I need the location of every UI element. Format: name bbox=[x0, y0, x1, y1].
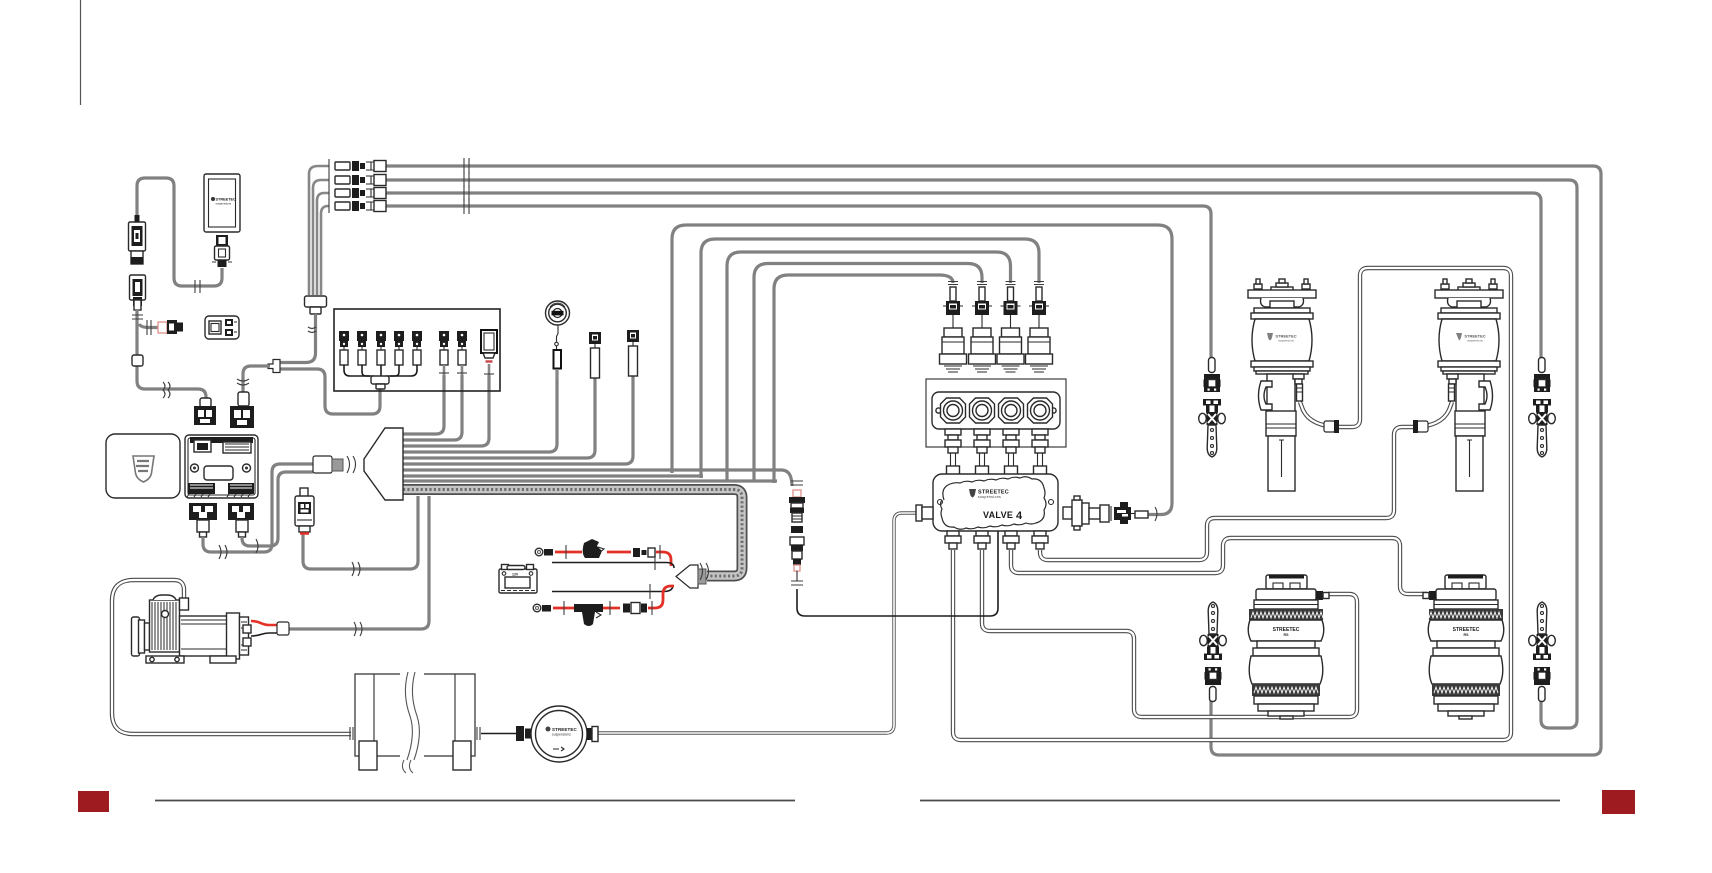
connector: harness inline coupler pair bbox=[313, 456, 332, 473]
air strut FL bbox=[1248, 279, 1316, 491]
wire: fan run 4 to remote fob bbox=[403, 368, 557, 452]
wire: fan run 8 bbox=[403, 474, 703, 477]
pressure switch A bbox=[589, 332, 601, 378]
page frame mark: vertical rule top-left bbox=[80, 0, 82, 105]
connector: USB-A female bbox=[130, 275, 146, 310]
svg-text:suspensions: suspensions bbox=[552, 733, 571, 737]
battery bbox=[499, 565, 537, 594]
air line: valve port 2 to rear-left bag bbox=[982, 550, 1357, 717]
svg-text:suspensions: suspensions bbox=[216, 202, 232, 206]
wire: height sensor extension 4 (to front-left sensor) bbox=[321, 206, 329, 295]
svg-text:VALVE: VALVE bbox=[983, 510, 1013, 520]
svg-text:suspensions: suspensions bbox=[1278, 339, 1294, 343]
staircase wire B (to manifold sensor 4) bbox=[701, 239, 1039, 478]
wire: splice to ECU connector bbox=[243, 366, 270, 392]
air line: valve port 3 to rear-right bag bbox=[1011, 538, 1427, 594]
staircase wire A (to drain solenoid) bbox=[672, 225, 1172, 515]
harness pigtails 1-5 bbox=[339, 331, 422, 377]
wire: fan run 7 to tank pressure sender bbox=[403, 470, 792, 486]
wire: controller USB cable bbox=[137, 178, 222, 286]
main harness fan bbox=[364, 428, 403, 500]
valve bottom ports bbox=[945, 531, 961, 549]
air line: strut FL pigtail bbox=[1300, 402, 1341, 427]
svg-text:12V: 12V bbox=[512, 573, 519, 577]
connector: strut FL airline coupler bbox=[1324, 421, 1335, 432]
ECU control module bbox=[185, 435, 258, 498]
wire: height sensor extension 1 (top run, to rear-left sensor) bbox=[309, 166, 329, 295]
connector: ECU top-left plug bbox=[200, 398, 211, 407]
connector: 5-into-1 joiner bbox=[371, 376, 389, 384]
wire: fan run 5 to pressure switch A bbox=[403, 378, 595, 458]
remote fob bbox=[546, 301, 570, 379]
height sensor RR bbox=[1529, 602, 1556, 702]
OBD adapter module bbox=[205, 316, 239, 339]
battery harness: ground leads bbox=[552, 563, 674, 592]
tank pressure sensor line bbox=[481, 733, 517, 735]
wire: relay feed bbox=[303, 496, 418, 569]
air line: strut FR pigtail bbox=[1413, 402, 1452, 427]
manifold pressure sensors bbox=[940, 282, 967, 373]
pressure switch B bbox=[627, 330, 639, 376]
manifold output fittings bbox=[945, 429, 961, 475]
wire: joiner to splice bbox=[280, 314, 316, 363]
svg-text:STREETEC: STREETEC bbox=[552, 727, 577, 732]
valve manifold solenoid block bbox=[926, 379, 1066, 447]
air line: tank to valve inlet bbox=[597, 513, 917, 733]
valve drain silencer bbox=[1063, 496, 1148, 530]
harness breakout box bbox=[334, 309, 500, 391]
air line: valve port 1 to front-left strut bbox=[953, 268, 1511, 740]
VALVE4 unit bbox=[933, 474, 1058, 531]
page frame mark: bottom rule right bbox=[920, 800, 1560, 802]
relay bbox=[295, 488, 314, 534]
compressor bbox=[132, 595, 252, 663]
strut logos bbox=[1267, 333, 1486, 343]
inline fuse links on extension wires bbox=[329, 158, 469, 214]
bag logos bbox=[1273, 627, 1480, 637]
compressor leads bbox=[251, 621, 277, 625]
wire: ECU right wing to fan bbox=[242, 472, 313, 546]
air bag RL bbox=[1248, 575, 1329, 720]
battery harness: negative relay lead bbox=[533, 586, 674, 626]
height sensor FL bbox=[1199, 358, 1226, 458]
wire: fan run 6 to pressure switch B bbox=[403, 376, 633, 464]
harness pigtail 8 (main with red tip) bbox=[481, 330, 497, 377]
connector: ECU lower-left wing plug bbox=[189, 503, 217, 537]
connector: ECU lower-right wing plug bbox=[228, 503, 254, 537]
wire: harness 5-into-1 to splice bbox=[280, 369, 380, 414]
page frame mark: red square bottom-left bbox=[78, 791, 109, 812]
staircase wire D (to manifold sensor 2) bbox=[754, 264, 982, 483]
tank pressure sender unit bbox=[531, 706, 587, 762]
height sensor RL bbox=[1200, 602, 1227, 702]
wire: height sensor extension 2 (to rear-right sensor) bbox=[313, 180, 329, 295]
wire: fan run 1 to harness pigtail 6 bbox=[403, 375, 444, 434]
air hose: compressor to tank bbox=[112, 580, 351, 734]
wire: compressor feed bbox=[289, 496, 429, 629]
height sensor FR bbox=[1529, 358, 1556, 458]
wire: OBD pigtail bbox=[139, 324, 158, 328]
air strut FR bbox=[1435, 279, 1503, 491]
pressure sender chain (harness to valve) bbox=[789, 481, 805, 585]
connector: strut FR airline coupler bbox=[1417, 421, 1428, 432]
wire: height sensor extension 3 (to front-right sensor) bbox=[317, 193, 329, 295]
connector: OBD red coupler bbox=[158, 322, 167, 333]
staircase wire C (to manifold sensor 3) bbox=[727, 252, 1011, 481]
shield logo box bbox=[106, 434, 180, 498]
staircase wire E (to manifold sensor 1) bbox=[774, 275, 953, 483]
air line: valve port 4 to front-right strut bbox=[1040, 427, 1413, 560]
main harness band to battery connector bbox=[403, 490, 742, 577]
wire: fan run 3 to harness pigtail 8 bbox=[403, 375, 489, 446]
svg-text:suspensions: suspensions bbox=[978, 495, 1001, 499]
wire: pressure sender to valve (signal) bbox=[797, 531, 998, 616]
tank drain ports bbox=[402, 760, 413, 773]
connector: mini-USB on controller bbox=[212, 235, 232, 267]
connector: 4-into-1 joiner bbox=[305, 296, 327, 307]
page frame mark: red square bottom-right bbox=[1602, 790, 1635, 814]
connector: USB-A male bbox=[129, 215, 146, 264]
splice wedge bbox=[268, 360, 280, 373]
harness pigtails 6-7 bbox=[439, 331, 449, 377]
svg-text:suspensions: suspensions bbox=[1467, 339, 1483, 343]
page frame mark: bottom rule left bbox=[155, 800, 795, 802]
svg-text:RS: RS bbox=[1284, 633, 1290, 637]
connector: ECU top-right plug bbox=[238, 392, 249, 406]
wire: fan run 2 to harness pigtail 7 bbox=[403, 375, 462, 440]
valve inlet port (left) bbox=[916, 505, 922, 521]
connector: battery harness wedge plug bbox=[676, 565, 698, 588]
air bag RR bbox=[1423, 575, 1504, 720]
wire: ECU left wing to fan bbox=[203, 464, 313, 552]
svg-text:RS: RS bbox=[1464, 633, 1470, 637]
air tank bbox=[350, 670, 480, 770]
wire: USB female to OBD link bbox=[137, 309, 206, 403]
battery harness: positive fused lead bbox=[535, 539, 671, 566]
svg-text:4: 4 bbox=[1016, 510, 1023, 522]
controller display unit bbox=[204, 174, 240, 232]
wire: fan run 9 bbox=[403, 479, 777, 482]
